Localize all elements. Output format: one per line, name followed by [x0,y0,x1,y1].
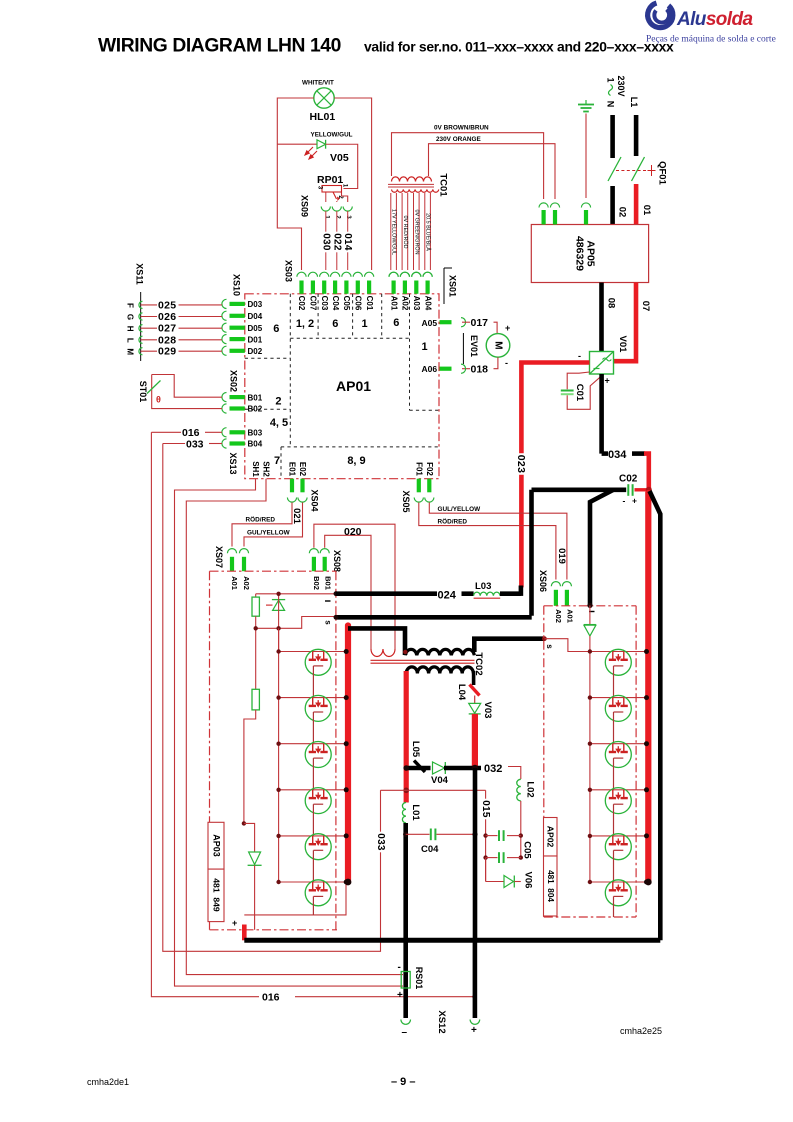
drain bus AP02 [645,493,651,882]
junction [472,832,477,837]
svg-text:20.5 BLUE/BLÅ: 20.5 BLUE/BLÅ [425,213,432,251]
wire + stub [242,925,247,941]
svg-text:0V BROWN/BRUN: 0V BROWN/BRUN [434,125,489,132]
svg-text:481 849: 481 849 [211,878,221,912]
svg-text:07: 07 [640,301,651,312]
svg-text:8, 9: 8, 9 [347,455,365,467]
inductor L04 [470,685,480,696]
svg-text:-: - [505,358,508,368]
wire O8 [599,283,604,352]
wire gate top to S [256,617,336,629]
wire [590,743,648,745]
pin A03 [412,272,421,277]
capacitor C05 (two in parallel) [483,833,487,837]
svg-text:valid for ser.no. 011–xxx–xxxx: valid for ser.no. 011–xxx–xxxx and 220–x… [364,39,674,55]
svg-text:D01: D01 [248,335,263,344]
pin D02 [222,346,227,355]
junction [276,592,280,596]
label box 481 804 [544,856,558,916]
junction 016/+ [472,995,476,999]
svg-text:M: M [493,341,504,349]
wire [474,696,476,704]
svg-text:+: + [397,990,403,1001]
svg-text:030: 030 [320,233,331,251]
wire [279,881,348,883]
svg-text:020: 020 [344,526,362,538]
svg-text:H: H [126,326,135,332]
capacitor C01 [567,372,589,389]
svg-text:024: 024 [438,590,457,602]
switch board AP03 outline [210,571,338,930]
wire TC01 secondary YELLOW/GUL [390,193,392,270]
svg-text:WHITE/VIT: WHITE/VIT [302,80,334,87]
pin C02 [297,272,306,277]
svg-text:AP02: AP02 [546,826,556,848]
wire 016 rail [151,432,259,996]
wire 024 up to junction 023 [519,586,524,596]
svg-text:θ: θ [156,395,161,405]
wire 023 [521,363,589,588]
svg-text:016: 016 [182,427,200,439]
svg-text:+: + [505,323,510,333]
junction C02/+bus [646,487,652,493]
wire 025 [141,304,222,306]
svg-text:XS10: XS10 [232,274,242,296]
svg-text:V06: V06 [523,872,534,889]
svg-text:N: N [606,101,616,108]
svg-text:XS09: XS09 [300,195,310,217]
TC02 core [371,659,475,661]
AP01 internal dashed regions [245,294,439,479]
svg-text:E02: E02 [298,462,307,477]
pin C04 [331,272,340,277]
bus 032 [406,766,430,771]
svg-text:L04: L04 [456,684,467,701]
svg-text:V05: V05 [330,152,349,164]
svg-text:033: 033 [375,833,386,851]
svg-text:+: + [232,918,237,928]
wire B01/020b [325,535,371,630]
svg-text:-: - [623,496,626,506]
svg-text:AP01: AP01 [336,378,371,394]
svg-text:1: 1 [606,77,616,82]
svg-text:C02: C02 [619,474,638,485]
svg-text:022: 022 [331,233,342,251]
wire AP03 bottom [244,884,346,915]
svg-text:019: 019 [556,548,567,564]
motor EV01 [486,334,510,358]
junction [403,832,408,837]
svg-text:C05: C05 [342,296,351,311]
pin D03 [222,299,227,308]
svg-text:01: 01 [641,205,652,216]
wire [279,835,348,837]
diode V03 [469,703,481,713]
capacitor C02 [532,487,627,492]
svg-text:C03: C03 [320,296,329,311]
pin B02 [222,404,227,413]
svg-text:F02: F02 [425,462,434,476]
svg-text:-: - [398,962,401,973]
svg-text:C01: C01 [574,384,585,402]
junction s node [542,636,547,641]
connector XS12 [401,1020,411,1025]
transformer TC01 [388,177,439,192]
svg-text:026: 026 [158,311,176,323]
svg-text:7: 7 [274,455,280,467]
svg-text:L05: L05 [410,741,421,758]
wire L1 upper [634,115,639,156]
connector XS01 bracket [443,268,445,304]
svg-text:027: 027 [158,323,176,335]
svg-text:AP03: AP03 [211,834,221,857]
svg-text:HL01: HL01 [310,111,336,123]
pin C01 [365,272,374,277]
pin C07 [308,272,317,277]
pin C06 [353,272,362,277]
svg-text:– 9 –: – 9 – [391,1076,415,1088]
svg-text:XS13: XS13 [228,452,238,474]
svg-text:SH1: SH1 [251,461,260,477]
wire TC01 secondary GREEN/GR&#214;N [413,193,415,270]
svg-text:C07: C07 [309,296,318,311]
svg-text:F01: F01 [415,462,424,476]
pin A05 [440,320,452,324]
svg-text:C01: C01 [365,296,374,311]
Alusolda logo [646,3,776,45]
resistor R2 [252,689,259,710]
wire TC02 secondary right [472,671,476,685]
diode V06 [485,858,487,882]
wire 230V ORANGE [429,144,556,199]
junction [334,615,339,620]
wire 028 [141,339,222,341]
svg-text:A01: A01 [566,609,575,623]
pin A04 [423,272,432,277]
svg-text:-: - [578,351,581,361]
wire O15 [485,790,487,881]
svg-text:B02: B02 [312,576,321,590]
drain bus AP03 [345,626,351,883]
svg-text:230V: 230V [616,75,626,96]
svg-text:GUL/YELLOW: GUL/YELLOW [438,506,482,513]
pin C05 [342,272,351,277]
svg-text:XS12: XS12 [436,1010,447,1033]
label box AP03 [208,822,224,869]
svg-text:V04: V04 [431,775,449,786]
thermostat ST01 [152,375,222,398]
svg-text:A02: A02 [242,576,251,590]
svg-text:032: 032 [484,763,502,775]
svg-text:GUL/YELLOW: GUL/YELLOW [247,529,291,536]
svg-text:L03: L03 [475,581,491,592]
svg-text:014: 014 [342,233,353,251]
pin F02 [427,479,431,493]
control board AP01 outline [245,294,439,479]
svg-text:02: 02 [617,207,628,218]
svg-text:D05: D05 [248,324,263,333]
svg-text:XS08: XS08 [332,550,342,572]
wire O2 [610,186,615,225]
svg-text:034: 034 [608,449,627,461]
svg-text:XS03: XS03 [284,260,294,282]
junction [403,788,409,794]
pin C03 [320,272,329,277]
svg-text:L01: L01 [410,804,421,821]
inductor L02 [517,779,521,801]
wire O1 [634,184,639,225]
pin B01 [222,393,227,402]
wire SH1 rail [175,479,404,986]
junction [334,591,339,596]
svg-text:0V RED/RÖD: 0V RED/RÖD [402,216,409,249]
junction [242,821,246,825]
label XS01 secondary arcs [389,272,398,277]
svg-text:A02: A02 [554,609,563,623]
svg-text:SH2: SH2 [262,461,271,477]
junction [403,650,407,654]
svg-text:V03: V03 [482,702,493,719]
svg-text:+: + [471,1025,477,1036]
wire 022 [336,211,338,270]
svg-text:V01: V01 [617,336,628,354]
svg-text:E01: E01 [288,462,297,477]
svg-text:1: 1 [421,341,427,353]
wire [444,766,481,771]
wire 029 [141,350,222,352]
wire HL01 left [277,98,314,270]
svg-text:TC01: TC01 [438,173,449,197]
svg-text:AP05486329: AP05486329 [574,236,597,271]
svg-text:RÖD/RED: RÖD/RED [246,515,276,524]
inductor L01 [402,803,406,823]
svg-text:C02: C02 [297,296,306,311]
svg-text:XS05: XS05 [401,490,411,512]
pin E02 [300,479,304,493]
wire 018 [494,357,498,368]
wire E02 GUL/YELLOW [244,503,303,547]
svg-text:ST01: ST01 [138,381,148,403]
svg-text:L02: L02 [525,781,536,797]
svg-text:–: – [402,1027,408,1038]
MOSFET bank AP02 [589,652,591,883]
wire 026 [141,316,222,318]
label O15 [480,799,491,820]
svg-text:XS04: XS04 [310,489,320,511]
power board AP05 [531,225,648,283]
label box 481 849 [208,869,224,922]
svg-text:2: 2 [275,396,281,408]
wire HL01 right [334,98,371,270]
wire to C02 + node [644,454,649,490]
wire + output [473,768,478,940]
svg-text:L: L [126,338,135,343]
wire O7 [614,283,637,362]
wire B02/020a [314,524,395,630]
svg-text:+: + [632,496,637,506]
svg-text:RS01: RS01 [414,967,424,990]
pin F01 [417,479,421,493]
svg-text:Peças de máquina de solda e co: Peças de máquina de solda e corte [646,35,776,45]
connector pins AP05 [539,203,548,208]
transformer TC02 primary [405,649,474,655]
svg-text:6: 6 [332,318,338,330]
capacitor C04 [406,833,430,835]
svg-text:C05: C05 [522,841,533,859]
pin D05 [222,323,227,332]
wire + frame [650,491,661,940]
svg-text:481 804: 481 804 [546,870,555,902]
svg-text:RP01: RP01 [317,174,343,186]
wire TC01 secondary RED/R&#214;D [401,193,403,270]
PE ground symbol [585,114,587,199]
pin D04 [222,311,227,320]
wire TC02 primary right [474,639,544,652]
svg-text:016: 016 [262,992,280,1004]
svg-text:A02: A02 [401,296,410,311]
wire [279,697,348,699]
pin E01 [290,479,294,493]
svg-text:QF01: QF01 [657,161,668,185]
pin B04 [222,439,227,448]
wire [279,789,348,791]
wire 030 [325,211,327,270]
wire V03 out [472,714,478,768]
svg-text:028: 028 [158,334,176,346]
wire 027 [141,327,222,329]
junction 032 [472,765,478,771]
svg-text:EV01: EV01 [469,335,479,357]
svg-text:A01: A01 [230,576,239,590]
svg-text:B01: B01 [324,576,333,590]
svg-text:D04: D04 [248,312,263,321]
svg-text:cmha2de1: cmha2de1 [87,1077,129,1087]
wire 034 [599,374,604,454]
wire [279,651,348,653]
wire s to AP02 [544,639,590,652]
wire TC01 secondary BLUE/BL&#197; [424,193,426,270]
svg-text:XS02: XS02 [229,370,239,392]
svg-text:WIRING DIAGRAM LHN 140: WIRING DIAGRAM LHN 140 [98,36,341,57]
svg-text:017: 017 [471,317,489,329]
svg-text:B04: B04 [248,440,263,449]
svg-text:025: 025 [158,299,176,311]
svg-text:023: 023 [515,455,527,473]
label 023 [515,453,527,475]
pin A06 [440,367,452,371]
diode V2 [244,823,255,851]
svg-text:A05: A05 [422,318,438,328]
wire 033/O15 node [381,789,486,791]
diode V1 AP02 [589,605,591,624]
LED V05 [277,143,317,145]
svg-text:6: 6 [393,317,399,329]
svg-text:C06: C06 [354,296,363,311]
svg-text:021: 021 [291,508,302,525]
wire E01 ROD/RED [232,503,292,547]
wire [590,789,648,791]
label box AP02 [544,818,558,857]
wire L01 down [403,823,408,1018]
svg-text:08: 08 [606,298,617,309]
svg-text:A06: A06 [422,364,438,374]
wire 017 [462,321,470,323]
svg-text:M: M [126,348,135,355]
wire AP03 gate feed [256,593,336,595]
wire [590,881,648,883]
transformer TC02 secondary [406,667,473,674]
svg-text:B02: B02 [248,405,263,414]
svg-text:+: + [605,376,610,386]
wire 024 bus [336,591,437,596]
svg-text:RÖD/RED: RÖD/RED [438,517,468,526]
svg-text:018: 018 [471,364,489,376]
svg-text:F: F [126,303,135,308]
svg-text:A03: A03 [412,296,421,311]
svg-text:17V YELLOW/GUL: 17V YELLOW/GUL [391,209,397,255]
svg-text:6: 6 [273,323,279,335]
diode V04 [433,762,445,774]
wire C02 branch [529,490,534,616]
svg-text:s: s [324,620,333,625]
svg-text:XS01: XS01 [448,275,458,297]
lamp HL01 [314,88,334,108]
svg-text:033: 033 [186,439,204,451]
svg-text:1, 2: 1, 2 [296,318,314,330]
label 033 [375,832,386,853]
svg-text:4, 5: 4, 5 [270,417,288,429]
svg-text:D03: D03 [248,300,263,309]
wire + bus [244,938,660,943]
svg-text:A04: A04 [423,296,432,311]
wire XS12 + drop [473,940,478,1018]
breaker QF01 [608,157,621,181]
svg-text:B03: B03 [248,429,263,438]
svg-text:cmha2e25: cmha2e25 [620,1026,662,1036]
wire N upper [610,115,615,158]
wire 016 to B03 [151,431,181,433]
wire C02 minus drop to AP02 [590,490,613,605]
rectifier V01 [590,352,614,375]
svg-text:D02: D02 [248,347,263,356]
current transformer [370,630,372,649]
MOSFET bank AP03 gate bus [278,628,280,882]
wire [279,743,348,745]
svg-text:0V GREEN/GRÖN: 0V GREEN/GRÖN [413,210,420,255]
label minus [589,611,595,613]
wire RP01 pins [325,193,327,203]
pin A02 [400,272,409,277]
wire 033 rail [163,444,381,952]
svg-text:Alusolda: Alusolda [676,9,753,30]
svg-text:C04: C04 [421,844,439,855]
svg-text:1: 1 [361,318,367,330]
wire 014 [347,211,349,270]
pin B03 [222,428,227,437]
wire TC02 secondary left (drain bus node) [404,671,409,803]
switch board AP02 outline [544,606,636,917]
svg-text:015: 015 [480,800,491,818]
svg-text:A01: A01 [389,296,398,311]
resistor R1 [255,594,257,597]
wire F02 GUL/YELLOW [429,503,567,580]
wire V05 right [326,144,358,188]
label minus [325,600,331,602]
svg-text:XS07: XS07 [214,546,224,568]
svg-text:L1: L1 [629,97,639,108]
svg-text:YELLOW/GUL: YELLOW/GUL [311,132,353,139]
wire [590,697,648,699]
